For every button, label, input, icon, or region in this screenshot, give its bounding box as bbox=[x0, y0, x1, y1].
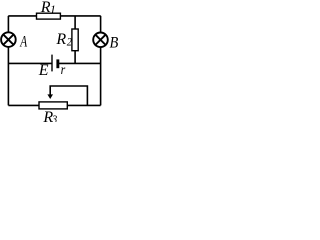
lamp A bbox=[1, 32, 16, 47]
svg-text:E: E bbox=[38, 62, 49, 79]
resistor R2 bbox=[72, 29, 78, 51]
svg-text:1: 1 bbox=[50, 2, 56, 16]
battery cell E long plate bbox=[51, 55, 53, 72]
wiper arrowhead bbox=[47, 94, 53, 99]
lamp B bbox=[93, 33, 108, 48]
wire middle right segment (battery to lamp B branch) bbox=[58, 62, 101, 64]
resistor R1 bbox=[37, 13, 61, 19]
svg-text:B: B bbox=[110, 34, 119, 52]
wire R2 branch vertical bbox=[74, 16, 76, 64]
svg-text:3: 3 bbox=[51, 113, 57, 122]
svg-text:A: A bbox=[19, 33, 27, 50]
wire right vertical through lamp B bbox=[100, 16, 102, 106]
wire R3 wiper loop bbox=[50, 86, 87, 105]
wire bottom through R3 bbox=[8, 104, 100, 106]
wire top (node between R1, lamps) bbox=[8, 15, 100, 17]
wire middle left segment (lamp A to battery) bbox=[8, 62, 52, 64]
rheostat R3 bbox=[39, 102, 67, 109]
svg-text:R: R bbox=[55, 31, 66, 48]
battery cell E short thick plate bbox=[56, 59, 59, 68]
svg-text:2: 2 bbox=[67, 36, 72, 49]
wire left vertical through lamp A bbox=[7, 16, 9, 106]
